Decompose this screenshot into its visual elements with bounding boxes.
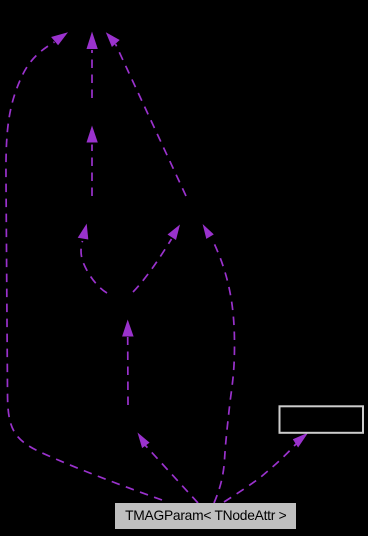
arrowhead E2 at top node <box>87 32 98 50</box>
class box TMAGParam< TNodeAttr > (grey current node) <box>115 503 296 529</box>
arrowhead E8 at node6 <box>138 433 150 449</box>
edge E8: TMAGParam box to node6 (short diagonal) <box>145 445 198 503</box>
edge E2: node2 to top node (middle vertical) <box>91 50 93 98</box>
arrowhead E6 at nodeR <box>168 225 181 241</box>
node box N7: empty white-bordered node <box>280 406 364 433</box>
arrowhead E10 at white box <box>293 433 308 448</box>
arrowhead E7 at nodeR <box>203 224 214 239</box>
edge E5: nodeM to node3 (left bowed curve) <box>81 241 107 293</box>
arrowhead E1 at top node <box>51 32 68 45</box>
arrowhead E4 at node2 <box>87 126 98 143</box>
edge E6: nodeM to nodeR (right diagonal) <box>133 239 172 292</box>
svg-text:TMAGParam< TNodeAttr >: TMAGParam< TNodeAttr > <box>125 508 287 523</box>
arrowhead E9 at nodeM <box>122 320 134 337</box>
arrowhead E3 at top node <box>106 32 120 47</box>
edge E4: node3 to node2 (middle vertical lower) <box>91 145 93 197</box>
edge E1: TMAGParam box to top node (long left curve) <box>6 42 162 500</box>
edge E7: TMAGParam box to nodeR (long right curve) <box>212 239 235 503</box>
edge E10: TMAGParam box to white box (right diagonal) <box>224 444 296 502</box>
edge E3: nodeR to top node (diagonal) <box>116 44 187 196</box>
arrowhead E5 at node3 <box>78 224 89 240</box>
edge E9: node6 to nodeM (vertical) <box>127 337 129 405</box>
